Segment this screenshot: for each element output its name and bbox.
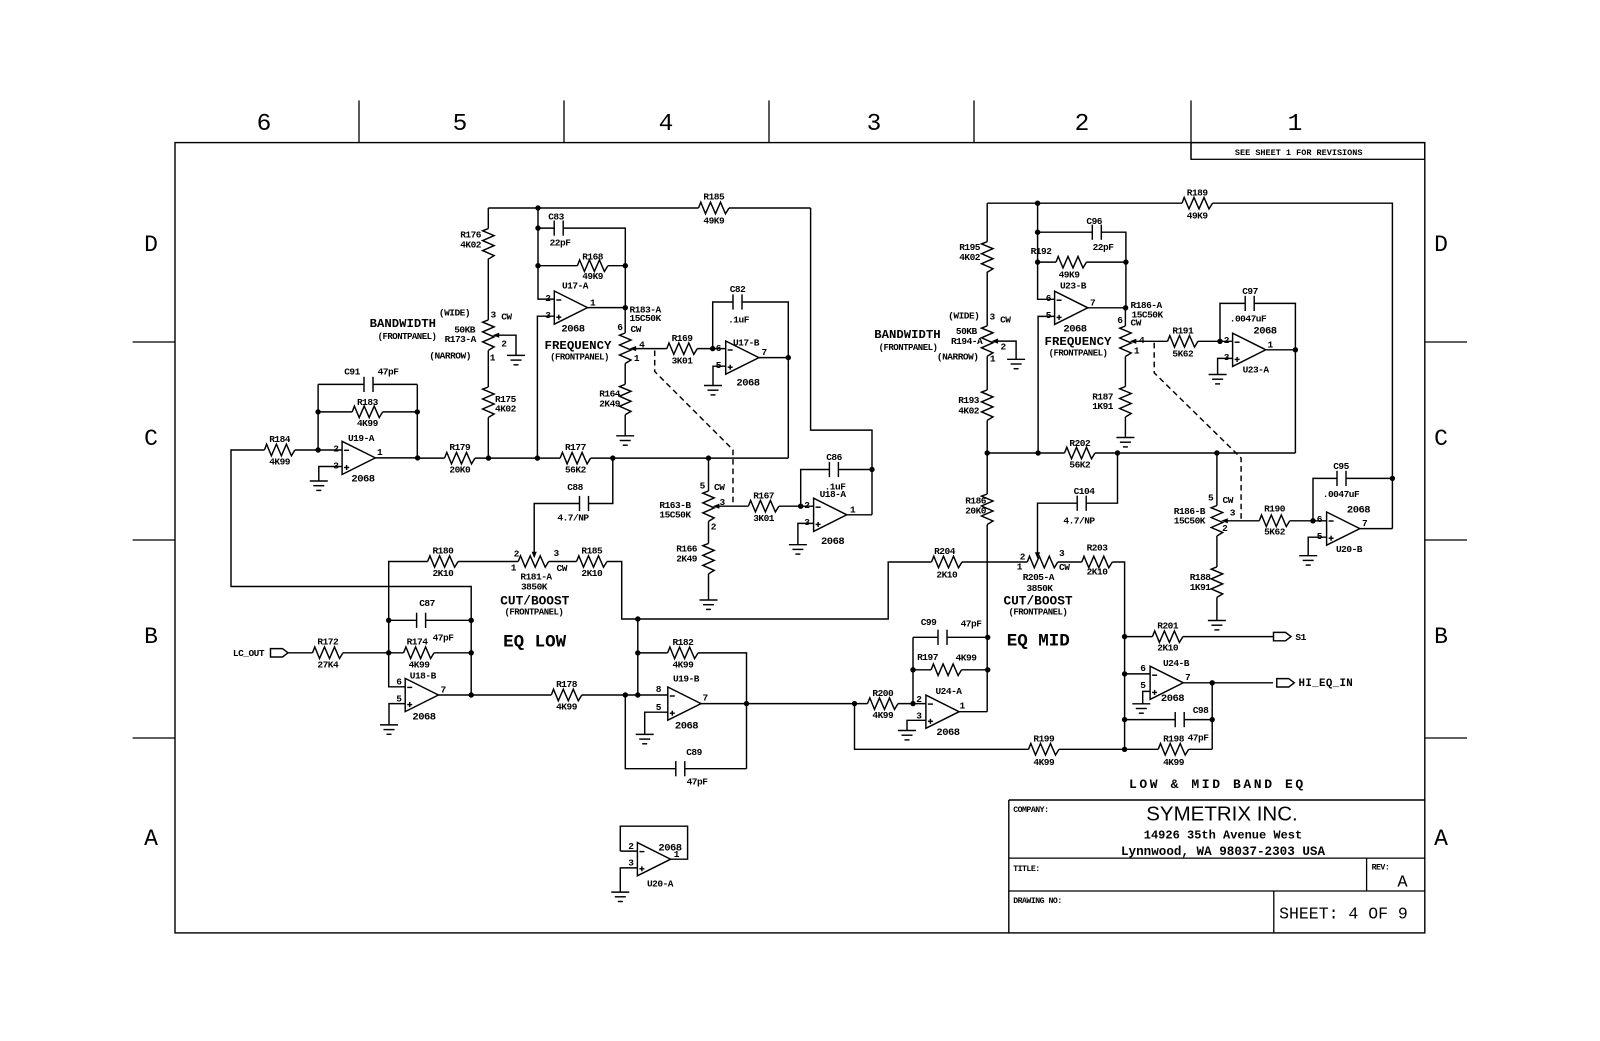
svg-text:6: 6 <box>617 322 623 333</box>
wire wiper R186-A to R191 <box>1136 340 1168 342</box>
svg-text:5: 5 <box>1208 493 1214 504</box>
wire <box>426 619 472 621</box>
junction C98 left <box>1122 717 1127 722</box>
svg-text:14926 35th Avenue West: 14926 35th Avenue West <box>1144 829 1302 843</box>
svg-text:R174: R174 <box>407 637 429 648</box>
wire U24-B pin6 <box>1125 673 1151 675</box>
svg-text:(FRONTPANEL): (FRONTPANEL) <box>550 353 609 363</box>
svg-text:2: 2 <box>514 549 520 560</box>
svg-text:Lynnwood, WA 98037-2303 USA: Lynnwood, WA 98037-2303 USA <box>1121 845 1325 859</box>
svg-text:R185: R185 <box>581 546 603 557</box>
wire <box>549 561 577 563</box>
wire <box>898 703 926 705</box>
junction R183 left <box>315 409 320 414</box>
junction U23-A out <box>1293 347 1298 352</box>
svg-text:C89: C89 <box>686 747 702 758</box>
svg-text:56K2: 56K2 <box>565 465 587 476</box>
svg-text:1K91: 1K91 <box>1190 582 1212 593</box>
wiper arrow R205-A <box>1035 552 1040 559</box>
junction C99 right <box>985 635 990 640</box>
wire R182 right down <box>698 653 746 769</box>
revisions note box <box>1191 143 1425 160</box>
junction R183 right <box>415 409 420 414</box>
drawing border frame <box>175 143 1425 933</box>
svg-text:R197: R197 <box>917 652 939 663</box>
node LC_OUT input tag <box>271 649 289 657</box>
svg-text:4K99: 4K99 <box>1163 757 1185 768</box>
junction U24-B pin6 <box>1122 671 1127 676</box>
svg-text:1: 1 <box>634 353 640 364</box>
ground (U24-B pin5) <box>1132 704 1150 713</box>
svg-text:1: 1 <box>590 298 596 309</box>
svg-text:R199: R199 <box>1033 733 1055 744</box>
op-amp U18-B <box>405 678 438 711</box>
resistor R200 <box>868 688 899 721</box>
svg-text:4K99: 4K99 <box>556 702 578 713</box>
svg-text:.0047uF: .0047uF <box>1230 314 1267 325</box>
svg-text:CW: CW <box>1059 562 1070 573</box>
svg-text:CUT/BOOST: CUT/BOOST <box>1003 593 1072 608</box>
svg-text:R203: R203 <box>1087 542 1109 553</box>
svg-text:R177: R177 <box>565 442 587 453</box>
junction R192 right <box>1123 259 1128 264</box>
junction U17-A pin3/rail <box>535 455 540 460</box>
wire <box>1124 357 1126 387</box>
resistor R192 <box>1031 246 1087 281</box>
svg-text:49K9: 49K9 <box>703 216 725 227</box>
ground (R188) <box>1208 621 1226 630</box>
svg-text:2: 2 <box>501 339 507 350</box>
capacitor C99 <box>938 630 947 645</box>
svg-text:2068: 2068 <box>736 378 759 390</box>
svg-text:C83: C83 <box>548 212 564 223</box>
svg-text:5: 5 <box>396 694 402 705</box>
wire <box>1038 231 1093 233</box>
ground (U19-A pin3) <box>310 481 328 490</box>
resistor R193 <box>958 390 993 421</box>
svg-text:R183: R183 <box>357 397 379 408</box>
resistor R202 <box>1065 438 1096 471</box>
wire top rail left right part <box>729 207 811 209</box>
svg-text:R178: R178 <box>556 679 578 690</box>
wire <box>986 356 988 390</box>
svg-text:5: 5 <box>1046 310 1052 321</box>
svg-text:6: 6 <box>1117 315 1123 326</box>
svg-text:U24-B: U24-B <box>1163 658 1190 669</box>
svg-text:1: 1 <box>850 505 856 516</box>
svg-text:5: 5 <box>656 702 662 713</box>
wire <box>1038 261 1056 263</box>
svg-text:R191: R191 <box>1172 326 1194 337</box>
svg-text:47pF: 47pF <box>1188 733 1210 744</box>
op-amp U20-A <box>637 843 670 876</box>
svg-text:1K91: 1K91 <box>1092 401 1114 412</box>
svg-text:R185: R185 <box>703 192 725 203</box>
svg-text:7: 7 <box>762 347 768 358</box>
svg-text:2: 2 <box>916 694 922 705</box>
wire <box>487 350 489 387</box>
ground (U24-A pin3) <box>898 731 916 740</box>
wire U19-B out to R200 <box>747 703 868 705</box>
op-amp U17-B <box>726 341 759 374</box>
svg-text:20K0: 20K0 <box>965 506 987 517</box>
junction U23-B pin5/rail <box>1035 450 1040 455</box>
potentiometer R181-A (CUT/BOOST) <box>518 556 549 567</box>
svg-text:U19-B: U19-B <box>673 674 700 685</box>
svg-text:1: 1 <box>1268 340 1274 351</box>
wiper arrow R181-A <box>532 552 537 559</box>
wire <box>318 411 352 413</box>
svg-text:2: 2 <box>1075 111 1090 138</box>
wire <box>295 449 342 451</box>
junction U17-B out <box>786 355 791 360</box>
wire <box>383 411 418 413</box>
wire U24-B output to HI_EQ_IN <box>1183 682 1273 684</box>
junction C98 right <box>1210 717 1215 722</box>
svg-text:47pF: 47pF <box>378 367 400 378</box>
wire U19-A pin3 to ground <box>319 467 342 482</box>
svg-text:3: 3 <box>1224 352 1230 363</box>
resistor R195 <box>959 242 993 273</box>
svg-text:CW: CW <box>557 563 568 574</box>
svg-text:HI_EQ_IN: HI_EQ_IN <box>1299 678 1354 690</box>
svg-text:2068: 2068 <box>1161 693 1184 705</box>
junction <box>852 701 857 706</box>
wire <box>1058 561 1082 563</box>
potentiometer R173-A (BANDWIDTH) <box>483 320 500 351</box>
svg-text:4: 4 <box>1139 335 1145 346</box>
node S1 output tag <box>1274 632 1292 640</box>
junction R192 left <box>1035 259 1040 264</box>
wire <box>1198 340 1233 342</box>
svg-text:3: 3 <box>1230 508 1236 519</box>
svg-text:1: 1 <box>377 447 383 458</box>
svg-text:BANDWIDTH: BANDWIDTH <box>370 317 436 331</box>
wire <box>986 272 988 326</box>
svg-text:R200: R200 <box>872 688 894 699</box>
svg-text:4K02: 4K02 <box>959 252 981 263</box>
capacitor C91 <box>364 377 373 392</box>
wire C98 left <box>1125 719 1176 721</box>
svg-text:3: 3 <box>628 858 634 869</box>
svg-text:3: 3 <box>1059 548 1065 559</box>
svg-text:6: 6 <box>1140 663 1146 674</box>
capacitor C96 <box>1092 225 1101 240</box>
svg-text:1: 1 <box>1288 111 1303 138</box>
ground (R173-A wiper) <box>507 355 525 364</box>
wire to R199 <box>855 704 1029 750</box>
ground (U17-B pin5) <box>704 386 722 395</box>
wire <box>1125 748 1159 750</box>
wire C99 left <box>913 636 938 638</box>
svg-text:CW: CW <box>1000 315 1011 326</box>
svg-text:SEE SHEET 1 FOR REVISIONS: SEE SHEET 1 FOR REVISIONS <box>1235 148 1363 158</box>
svg-text:CUT/BOOST: CUT/BOOST <box>500 593 569 608</box>
svg-text:A: A <box>1434 826 1448 852</box>
svg-text:R168: R168 <box>582 252 604 263</box>
resistor R185(2K10) <box>577 546 608 580</box>
node HI_EQ_IN tag <box>1277 679 1295 687</box>
svg-text:R192: R192 <box>1031 246 1053 257</box>
junction node U23-B out / R186-A top <box>1123 305 1128 310</box>
junction R184/pin2 <box>315 447 320 452</box>
wire dashed gang line R183-A to R163-B <box>655 351 733 507</box>
wire rail <box>475 457 560 459</box>
wire <box>697 348 725 350</box>
resistor R204 <box>932 546 963 581</box>
svg-text:47pF: 47pF <box>433 633 455 644</box>
svg-text:2068: 2068 <box>1253 325 1276 337</box>
wire U24-A pin3 to ground <box>907 720 926 730</box>
wire <box>1272 636 1274 638</box>
resistor R184 <box>264 434 295 468</box>
svg-text:1: 1 <box>490 353 496 364</box>
wire C82 right to output <box>742 302 788 358</box>
svg-text:EQ LOW: EQ LOW <box>503 632 567 652</box>
svg-text:2K49: 2K49 <box>599 399 621 410</box>
wire C98 right <box>1184 719 1212 721</box>
resistor R203 <box>1082 542 1113 577</box>
svg-text:2K10: 2K10 <box>1157 643 1179 654</box>
wire R185 net down to U18-A out <box>811 208 872 515</box>
svg-text:3850K: 3850K <box>521 582 548 593</box>
wire U19-A output <box>375 457 417 459</box>
wire <box>986 203 988 242</box>
svg-text:4K02: 4K02 <box>460 240 482 251</box>
wire U24-B pin5 to ground <box>1143 691 1150 703</box>
svg-text:4.7/NP: 4.7/NP <box>1063 516 1095 527</box>
wire <box>608 265 625 267</box>
svg-text:2K10: 2K10 <box>1087 566 1109 577</box>
svg-text:B: B <box>144 624 158 650</box>
wire EQ LOW summing rail <box>607 562 932 620</box>
svg-text:FREQUENCY: FREQUENCY <box>545 339 612 353</box>
svg-text:4K99: 4K99 <box>409 660 431 671</box>
wire U19-B output <box>701 703 747 705</box>
svg-text:C97: C97 <box>1242 286 1258 297</box>
wire rail right half <box>1095 452 1295 454</box>
wire U18-A output <box>847 514 872 516</box>
svg-text:C86: C86 <box>826 452 842 463</box>
svg-text:R204: R204 <box>934 546 956 557</box>
junction C87 right <box>469 618 474 623</box>
svg-text:R179: R179 <box>449 442 471 453</box>
wire U23-B pin5 to rail <box>1038 316 1055 453</box>
svg-text:56K2: 56K2 <box>1069 460 1091 471</box>
wire C97 left <box>1220 303 1245 341</box>
svg-text:REV:: REV: <box>1372 864 1390 873</box>
wire U23-A output <box>1266 349 1296 351</box>
svg-text:U19-A: U19-A <box>348 433 375 444</box>
svg-text:1: 1 <box>990 354 996 365</box>
resistor R168 <box>577 252 608 283</box>
wire U17-B out down to rail <box>787 358 789 459</box>
junction node top rail / C83 branch <box>535 205 540 210</box>
wire <box>389 619 417 621</box>
wire bandwidth wiper to ground <box>998 341 1016 359</box>
svg-text:C82: C82 <box>730 284 746 295</box>
junction R197 right <box>985 667 990 672</box>
svg-text:(NARROW): (NARROW) <box>429 351 471 362</box>
svg-text:(WIDE): (WIDE) <box>948 311 979 322</box>
svg-text:.1uF: .1uF <box>728 315 750 326</box>
svg-text:C95: C95 <box>1333 461 1349 472</box>
svg-text:C99: C99 <box>921 617 937 628</box>
svg-text:DRAWING NO:: DRAWING NO: <box>1013 897 1062 906</box>
junction R174 right <box>469 650 474 655</box>
svg-text:7: 7 <box>1185 672 1191 683</box>
resistor R169 <box>667 333 698 367</box>
svg-text:R169: R169 <box>672 333 694 344</box>
wire <box>434 652 471 654</box>
wire <box>1124 308 1126 326</box>
svg-text:4K99: 4K99 <box>269 457 291 468</box>
svg-text:R184: R184 <box>269 434 291 445</box>
svg-text:49K9: 49K9 <box>1059 270 1081 281</box>
svg-text:6: 6 <box>716 343 722 354</box>
wire C97 right <box>1254 303 1295 349</box>
op-amp U19-B <box>668 687 701 720</box>
svg-text:U18-A: U18-A <box>820 489 847 500</box>
junction U19-A out <box>415 455 420 460</box>
svg-text:(WIDE): (WIDE) <box>439 308 470 319</box>
svg-text:4K99: 4K99 <box>872 710 894 721</box>
junction U24-A pin2 <box>910 701 915 706</box>
wire U20-A pin2 <box>620 850 637 852</box>
wire feedback U18-B out to R184 <box>231 450 471 695</box>
wire U19-B pin5 to ground <box>645 712 668 734</box>
capacitor C88 <box>580 496 589 511</box>
resistor R189 <box>1182 187 1213 221</box>
wire <box>708 521 710 543</box>
svg-text:2068: 2068 <box>351 474 374 486</box>
svg-text:TITLE:: TITLE: <box>1013 865 1039 874</box>
svg-text:3: 3 <box>867 111 882 138</box>
wire inverting input branch U17-A <box>538 208 554 299</box>
op-amp U23-A <box>1233 333 1266 366</box>
svg-text:B: B <box>1434 624 1448 650</box>
svg-text:7: 7 <box>441 685 447 696</box>
potentiometer R163-B (FREQUENCY) <box>703 491 720 522</box>
wire U23-A pin3 to ground <box>1218 358 1233 374</box>
wire rail right half <box>987 452 1064 454</box>
svg-text:4K99: 4K99 <box>672 660 694 671</box>
resistor R191 <box>1168 326 1199 360</box>
wire C99 right <box>947 636 988 638</box>
svg-text:7: 7 <box>703 693 709 704</box>
op-amp U18-A <box>814 498 847 531</box>
wire wiper R186-B to R190 <box>1228 520 1260 522</box>
ground (R187) <box>1116 438 1134 447</box>
wire <box>962 561 1027 563</box>
resistor R180 <box>428 546 459 580</box>
svg-text:4.7/NP: 4.7/NP <box>557 513 589 524</box>
svg-text:6: 6 <box>396 677 402 688</box>
resistor R177 <box>560 442 591 476</box>
junction C87 left <box>386 618 391 623</box>
wire <box>624 364 626 385</box>
wire bandwidth wiper to ground <box>499 335 516 355</box>
svg-text:5: 5 <box>453 111 468 138</box>
svg-text:(FRONTPANEL): (FRONTPANEL) <box>504 608 563 618</box>
ground (U18-A pin3) <box>789 545 807 554</box>
wire <box>1059 748 1125 750</box>
svg-text:R205-A: R205-A <box>1023 572 1055 583</box>
svg-text:15C50K: 15C50K <box>1174 516 1206 527</box>
junction R175/rail <box>486 455 491 460</box>
svg-text:EQ MID: EQ MID <box>1007 631 1070 651</box>
svg-text:2: 2 <box>628 841 634 852</box>
wire <box>538 227 554 229</box>
ground (U23-A pin3) <box>1209 375 1227 384</box>
wire C88 left down to R181-A wiper <box>534 504 579 553</box>
op-amp U23-B <box>1055 291 1088 324</box>
svg-text:U17-B: U17-B <box>733 338 760 349</box>
wire <box>471 694 551 696</box>
svg-text:2K10: 2K10 <box>432 568 454 579</box>
svg-text:5: 5 <box>700 481 706 492</box>
op-amp U24-A <box>926 695 959 728</box>
svg-text:3K01: 3K01 <box>753 513 775 524</box>
svg-text:2K10: 2K10 <box>936 570 958 581</box>
svg-text:2: 2 <box>804 500 810 511</box>
wire U18-B output <box>438 694 471 696</box>
svg-text:5: 5 <box>1140 680 1146 691</box>
junction <box>635 616 640 621</box>
resistor R178 <box>551 679 582 713</box>
svg-text:2: 2 <box>1001 342 1007 353</box>
ground (U20-A pin3) <box>611 892 629 901</box>
wire C95 left <box>1313 478 1337 520</box>
svg-text:1: 1 <box>1134 346 1140 357</box>
wire C82 left <box>713 302 733 349</box>
svg-text:R180: R180 <box>432 546 454 557</box>
svg-text:SHEET: 4 OF 9: SHEET: 4 OF 9 <box>1279 905 1408 924</box>
svg-text:2068: 2068 <box>412 712 435 724</box>
capacitor C104 <box>1077 496 1086 511</box>
wire <box>708 458 710 491</box>
svg-text:8: 8 <box>656 684 662 695</box>
svg-text:U20-A: U20-A <box>647 879 674 890</box>
resistor R186 <box>965 494 993 525</box>
resistor R201 <box>1152 621 1183 654</box>
op-amp U17-A <box>554 291 587 324</box>
resistor R199 <box>1029 733 1060 768</box>
svg-text:FREQUENCY: FREQUENCY <box>1045 335 1112 349</box>
wire <box>913 669 931 671</box>
svg-text:CW: CW <box>501 312 512 323</box>
svg-text:R167: R167 <box>753 491 775 502</box>
svg-text:4: 4 <box>659 111 674 138</box>
wire U17-B output <box>759 357 788 359</box>
wire <box>458 561 518 563</box>
junction U18-B out <box>469 692 474 697</box>
wire U23-B output <box>1088 307 1126 309</box>
wire <box>563 228 625 266</box>
wire <box>487 418 489 459</box>
wire <box>1125 262 1127 308</box>
svg-text:R189: R189 <box>1187 187 1209 198</box>
wire C89 right <box>685 768 747 770</box>
svg-text:5K62: 5K62 <box>1172 349 1194 360</box>
wire top rail left <box>488 207 698 209</box>
wire <box>487 259 489 320</box>
title block <box>1009 800 1425 933</box>
junction node U17-A out / R183-A top <box>623 305 628 310</box>
resistor R187 <box>1092 387 1131 418</box>
wire U20-B pin5 to ground <box>1308 537 1326 556</box>
svg-text:D: D <box>1434 232 1448 258</box>
